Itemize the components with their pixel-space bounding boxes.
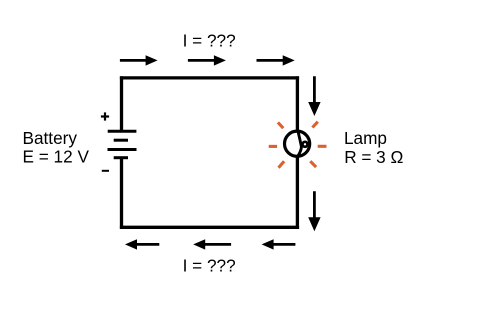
current arrow top 3 (257, 55, 295, 65)
lamp glow rays (269, 122, 327, 168)
svg-text:I = ???: I = ??? (183, 30, 236, 50)
wire right upper (296, 76, 299, 131)
battery negative terminal mark - (102, 170, 109, 172)
svg-text:Battery: Battery (23, 128, 78, 148)
lamp L1 (285, 130, 310, 158)
current arrow bottom 1 (125, 239, 159, 249)
svg-text:E = 12 V: E = 12 V (23, 147, 90, 167)
current arrow top 1 (120, 55, 158, 65)
wire left lower (120, 158, 123, 229)
wire bottom (120, 226, 299, 229)
svg-text:Lamp: Lamp (344, 128, 387, 148)
current arrow right 1 (308, 76, 320, 116)
wire top (120, 76, 299, 79)
current arrow right 2 (308, 191, 320, 231)
current arrow bottom 2 (193, 239, 231, 249)
svg-text:I = ???: I = ??? (183, 255, 236, 275)
current arrow bottom 3 (262, 239, 296, 249)
battery positive terminal mark + (101, 112, 109, 120)
current arrow top 2 (188, 55, 226, 65)
svg-text:R = 3 Ω: R = 3 Ω (344, 147, 403, 167)
battery B1 (108, 131, 137, 157)
wire left upper (120, 76, 123, 131)
wire right lower (296, 157, 299, 229)
